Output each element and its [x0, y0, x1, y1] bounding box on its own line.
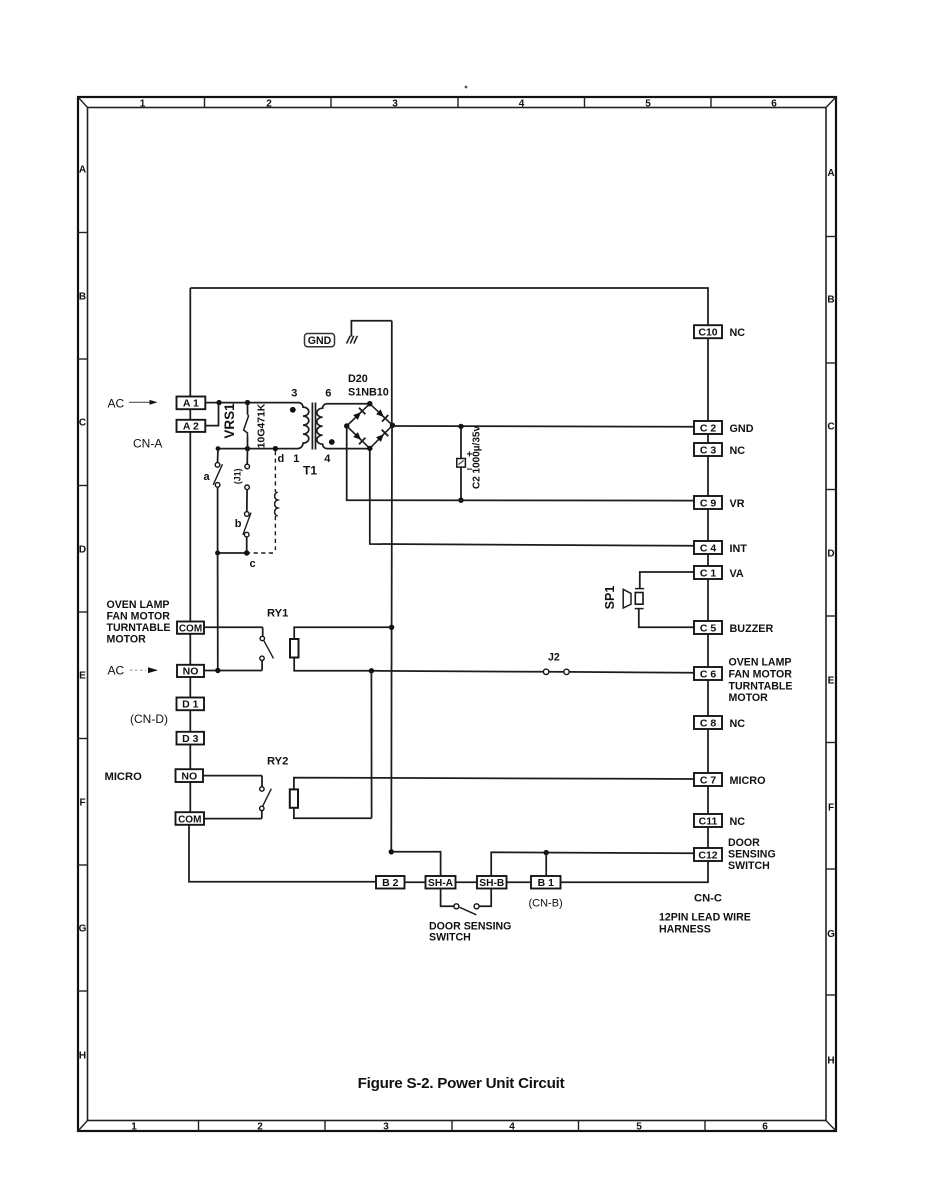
svg-text:B: B [79, 292, 86, 303]
svg-text:NO: NO [181, 770, 197, 782]
svg-text:A: A [79, 165, 86, 176]
svg-text:5: 5 [645, 99, 651, 110]
diode D20-3 (upper-right arm) [376, 409, 384, 417]
node: RY1/RY2 tie junction [369, 668, 374, 673]
svg-text:TURNTABLE: TURNTABLE [729, 681, 793, 693]
svg-text:4: 4 [519, 99, 525, 110]
T1 primary phase dot [290, 407, 296, 413]
svg-text:C 8: C 8 [700, 717, 717, 729]
node: C2 cap bottom junction [458, 498, 463, 503]
connector J2 [543, 669, 548, 674]
interlock switch a [217, 449, 220, 463]
connector pin C6 [694, 667, 722, 680]
T1 secondary phase dot [329, 439, 335, 445]
svg-text:C: C [79, 418, 86, 429]
svg-text:6: 6 [762, 1122, 768, 1133]
node: A1/A2 junction [216, 400, 221, 405]
diode D20-2 (upper-left arm) [353, 412, 361, 420]
svg-text:C 9: C 9 [700, 497, 717, 509]
relay RY2 coil [290, 789, 298, 807]
svg-text:G: G [79, 924, 87, 935]
svg-text:MOTOR: MOTOR [107, 634, 147, 646]
svg-text:b: b [235, 518, 242, 530]
svg-text:Figure S-2. Power Unit Circuit: Figure S-2. Power Unit Circuit [358, 1075, 565, 1092]
svg-text:BUZZER: BUZZER [730, 623, 774, 635]
T1 core [311, 403, 313, 450]
svg-text:D: D [827, 549, 834, 560]
svg-text:E: E [828, 676, 835, 687]
connector pin C10 [694, 325, 722, 338]
svg-text:C2 1000µ/35v: C2 1000µ/35v [472, 426, 483, 489]
svg-text:E: E [79, 671, 86, 682]
dashed link: d to c with choke [274, 451, 276, 492]
connector A1 [177, 397, 206, 410]
svg-text:TURNTABLE: TURNTABLE [107, 622, 171, 634]
svg-text:6: 6 [325, 388, 331, 400]
node d [273, 446, 278, 451]
svg-text:A 1: A 1 [183, 398, 199, 410]
connector pin C3 [694, 443, 722, 456]
wire: NO terminal run [204, 670, 262, 672]
svg-text:MICRO: MICRO [105, 771, 143, 783]
svg-text:D20: D20 [348, 373, 368, 385]
wire: RY1/RY2 tie vertical [370, 671, 372, 819]
connector D3 [177, 732, 205, 745]
svg-text:B: B [827, 295, 834, 306]
connector COM (oven lamp relay) [177, 622, 204, 634]
svg-text:2: 2 [266, 99, 272, 110]
connector B1 (CN-B) [531, 876, 561, 889]
svg-text:C 1: C 1 [700, 567, 717, 579]
svg-text:6: 6 [771, 99, 777, 110]
svg-text:S1NB10: S1NB10 [348, 387, 389, 399]
connector NO (micro relay) [176, 769, 204, 782]
svg-text:C 7: C 7 [700, 774, 717, 786]
svg-text:CN-C: CN-C [694, 893, 722, 905]
node: B1 branch junction [544, 850, 549, 855]
speaker SP1 [640, 572, 694, 589]
svg-text:F: F [79, 798, 85, 809]
svg-text:DOOR: DOOR [728, 837, 760, 849]
connector pin C11 [694, 814, 722, 827]
connector A2 [177, 420, 206, 432]
transformer T1 secondary winding [317, 404, 327, 449]
svg-text:(J1): (J1) [233, 468, 243, 484]
wire: A1 to junction and transformer primary pin 3 [205, 402, 299, 404]
svg-text:c: c [250, 558, 256, 570]
svg-text:4: 4 [509, 1122, 515, 1133]
svg-text:AC: AC [108, 664, 125, 678]
svg-text:DOOR SENSING: DOOR SENSING [429, 920, 511, 932]
svg-text:SWITCH: SWITCH [728, 860, 770, 872]
svg-text:2: 2 [257, 1122, 263, 1133]
svg-text:MOTOR: MOTOR [729, 692, 769, 704]
CN-C connector rail [707, 338, 709, 421]
svg-text:VR: VR [730, 498, 745, 510]
connector pin C2 [694, 421, 722, 434]
svg-text:RY2: RY2 [267, 756, 288, 768]
wire: bridge + output to connector C2 (GND) [393, 425, 695, 428]
svg-text:F: F [828, 803, 834, 814]
svg-text:INT: INT [730, 543, 748, 555]
svg-text:SP1: SP1 [603, 586, 617, 610]
svg-text:FAN MOTOR: FAN MOTOR [729, 669, 793, 681]
wire: A2 up to A1 junction [205, 403, 218, 426]
svg-text:a: a [204, 471, 211, 483]
connector SH-B [477, 876, 507, 889]
relay RY1 contact (COM/NO) [204, 626, 263, 628]
GND label box [305, 334, 335, 347]
connector pin C7 [694, 773, 722, 786]
svg-text:C 4: C 4 [700, 542, 717, 554]
connector COM (micro relay) [176, 812, 205, 825]
svg-text:A 2: A 2 [183, 421, 199, 433]
svg-text:GND: GND [308, 335, 332, 347]
wire: B1 to C12 bottom [561, 861, 709, 882]
node: rail/C12 junction [389, 849, 394, 854]
svg-text:SH-A: SH-A [428, 878, 454, 889]
svg-text:NC: NC [730, 718, 746, 730]
transformer T1 primary winding [298, 403, 309, 449]
jumper (J1) [246, 449, 248, 465]
svg-text:NC: NC [730, 816, 746, 828]
svg-text:T1: T1 [303, 464, 317, 478]
node: VRS1 bottom junction [245, 446, 250, 451]
wire: rail to SH-A / C12 line [391, 852, 440, 876]
wire: RY2 COM to connector B2 [189, 825, 376, 882]
svg-text:C 5: C 5 [700, 622, 717, 634]
svg-text:C: C [827, 422, 834, 433]
svg-text:(CN-D): (CN-D) [130, 712, 168, 726]
svg-text:5: 5 [636, 1122, 642, 1133]
wire: top rail from left bus to connector pin C10 [190, 288, 708, 325]
svg-text:3: 3 [291, 388, 297, 400]
connector NO (oven lamp relay) [177, 665, 204, 677]
svg-text:COM: COM [179, 623, 202, 634]
svg-text:C 6: C 6 [700, 668, 717, 680]
svg-text:RY1: RY1 [267, 608, 288, 620]
svg-text:H: H [79, 1051, 86, 1062]
svg-text:C 3: C 3 [700, 444, 717, 456]
svg-text:VRS1: VRS1 [222, 403, 237, 439]
svg-text:MICRO: MICRO [730, 775, 766, 787]
svg-text:SH-B: SH-B [479, 878, 504, 889]
svg-text:AC: AC [108, 397, 125, 411]
svg-text:SWITCH: SWITCH [429, 932, 471, 944]
svg-text:OVEN LAMP: OVEN LAMP [107, 599, 170, 611]
ground symbol [351, 321, 391, 337]
connector SH-A [426, 876, 456, 889]
door sensing switch [441, 889, 454, 907]
svg-text:G: G [827, 929, 835, 940]
relay RY1 coil [290, 639, 299, 658]
svg-text:H: H [827, 1056, 834, 1067]
svg-text:A: A [827, 168, 834, 179]
svg-text:B 1: B 1 [538, 877, 555, 889]
varistor VRS1 10G471K [245, 400, 250, 405]
wire: RY2 coil top to connector C7 (MICRO) [294, 778, 694, 790]
wire: SH-B / B1 to connector C12 [491, 852, 694, 876]
svg-text:D 1: D 1 [182, 699, 199, 711]
capacitor C2 1000u/35v [460, 426, 462, 458]
wire: RY2 coil bottom loop to tie vertical [294, 808, 372, 819]
svg-text:4: 4 [324, 453, 331, 465]
svg-text:(CN-B): (CN-B) [529, 898, 563, 910]
svg-text:CN-A: CN-A [133, 437, 162, 451]
switch b [245, 512, 250, 517]
wire: left bus through CN-A / CN-D connector column [189, 288, 191, 397]
wire: bridge left vertex to connector C9 (VR) [347, 426, 694, 501]
svg-text:C12: C12 [698, 849, 717, 861]
svg-text:3: 3 [392, 99, 398, 110]
connector B2 [376, 876, 405, 889]
svg-text:NO: NO [183, 666, 199, 678]
wire: secondary pin 6 to bridge top vertex [327, 403, 370, 405]
svg-text:NC: NC [730, 445, 746, 457]
node: rail/RY1 coil junction [389, 625, 394, 630]
connector pin C4 [694, 541, 722, 554]
svg-text:GND: GND [730, 423, 754, 435]
svg-text:10G471K: 10G471K [256, 403, 267, 448]
connector pin C5 [694, 621, 722, 634]
svg-text:VA: VA [730, 568, 744, 580]
node: NO junction [215, 668, 220, 673]
svg-text:d: d [278, 453, 285, 465]
wire: DC rail (bridge right vertex vertical) [391, 321, 393, 426]
connector pin C8 [694, 716, 722, 729]
wire: links between bottom connectors [405, 881, 426, 883]
bridge rectifier D20 S1NB10 [347, 404, 393, 449]
connector pin C1 [694, 566, 722, 579]
svg-text:C 2: C 2 [700, 422, 717, 434]
svg-text:D: D [79, 545, 86, 556]
connector pin C9 [694, 496, 722, 509]
wire: node c down to NO junction [217, 553, 219, 671]
svg-text:C10: C10 [698, 327, 717, 339]
svg-text:1: 1 [140, 99, 146, 110]
svg-text:3: 3 [383, 1122, 389, 1133]
svg-text:FAN MOTOR: FAN MOTOR [107, 611, 171, 623]
svg-text:B 2: B 2 [382, 877, 399, 889]
svg-text:J2: J2 [548, 652, 560, 664]
connector pin C12 [694, 848, 722, 861]
node: C2 cap top junction [458, 424, 463, 429]
svg-text:D 3: D 3 [182, 733, 199, 745]
wire: bridge bottom vertex to connector C4 (INT) [370, 448, 694, 545]
connector D1 [177, 698, 205, 711]
svg-text:SENSING: SENSING [728, 849, 776, 861]
svg-text:1: 1 [131, 1122, 137, 1133]
svg-text:NC: NC [730, 327, 746, 339]
bridge vertex nodes [344, 423, 349, 428]
svg-text:HARNESS: HARNESS [659, 923, 711, 935]
svg-text:C11: C11 [699, 815, 718, 827]
svg-text:COM: COM [178, 814, 201, 825]
diode D20-1 (lower-left arm) [353, 432, 361, 440]
node c and tie wire [218, 552, 247, 554]
svg-text:OVEN LAMP: OVEN LAMP [729, 657, 792, 669]
wire: primary bottom pin 1 / node d [218, 448, 298, 450]
svg-text:1: 1 [293, 453, 299, 465]
wire: RY1 coil bottom to C6 with connector J2 [371, 671, 543, 672]
relay RY2 contact (NO/COM) [203, 775, 262, 777]
diode D20-4 (lower-right arm) [376, 434, 384, 442]
wire: secondary pin 4 to bridge bottom vertex [327, 448, 370, 450]
svg-text:12PIN LEAD WIRE: 12PIN LEAD WIRE [659, 911, 751, 923]
